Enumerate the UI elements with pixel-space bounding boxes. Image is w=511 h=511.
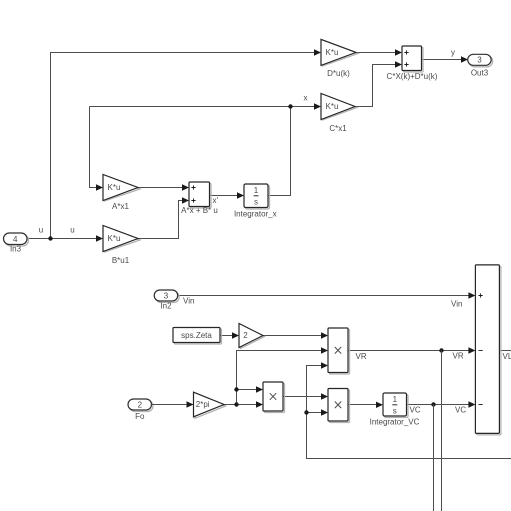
node w0 junction	[234, 402, 238, 406]
svg-text:Integrator_VC: Integrator_VC	[370, 417, 420, 426]
sum A*x + B* u	[181, 182, 218, 215]
svg-text:VL: VL	[503, 352, 511, 361]
plant sum block	[475, 265, 501, 435]
wire VL feedback vertical	[307, 366, 511, 459]
node VC junction	[431, 402, 435, 406]
svg-text:K*u: K*u	[108, 183, 121, 192]
constant sps.Zeta	[173, 328, 222, 345]
outport Out3	[468, 54, 493, 77]
wire A*x1 output to sum	[138, 187, 183, 189]
svg-text:s: s	[393, 407, 397, 416]
gain B*u1	[103, 226, 140, 266]
arrow into A*x1	[96, 184, 103, 190]
inport Fo	[128, 399, 153, 421]
arrow into 2*pi gain	[187, 401, 194, 407]
svg-text:2: 2	[243, 331, 248, 340]
wire Vin from In2 to plant	[178, 295, 469, 297]
svg-text:3: 3	[477, 55, 482, 64]
wire VL output of plant	[499, 350, 511, 352]
svg-text:VC: VC	[410, 406, 421, 415]
node VR junction	[439, 348, 443, 352]
arrow into plant VR	[468, 347, 475, 353]
arrow into product1 input3	[321, 362, 328, 368]
node x junction	[288, 104, 292, 108]
arrow into Integrator_VC	[376, 402, 383, 408]
wire VL branch to product3 input2	[307, 412, 323, 414]
svg-text:x': x'	[213, 196, 219, 205]
arrow into product2 input1	[256, 386, 263, 392]
wire sps.Zeta to gain 2	[221, 335, 234, 337]
wire sum output x' to Integrator_x	[210, 195, 239, 197]
svg-text:Integrator_x: Integrator_x	[234, 209, 277, 218]
svg-text:In3: In3	[10, 245, 22, 254]
wire product2 out to product3	[283, 396, 322, 398]
svg-text:u: u	[70, 226, 74, 235]
gain 2*pi	[194, 392, 226, 418]
svg-text:C*X(k)+D*u(k): C*X(k)+D*u(k)	[387, 72, 438, 81]
svg-text:D*u(k): D*u(k)	[327, 69, 350, 78]
wire C*x1 output to sum2 input 2	[355, 65, 396, 107]
wire branch to product2 input1	[237, 389, 258, 391]
node VL junction	[304, 410, 308, 414]
gain D*u(k)	[321, 39, 358, 78]
svg-text:Fo: Fo	[135, 412, 145, 421]
svg-text:Out3: Out3	[471, 69, 489, 78]
arrow into sum1 input2	[182, 197, 189, 203]
arrow into Out3	[461, 56, 468, 62]
wire u branch up to D*u(k)	[51, 53, 316, 239]
wire VR tap down	[441, 351, 443, 511]
wire product3 out to Integrator_VC	[348, 404, 377, 406]
wire y from sum2 to Out3	[422, 59, 463, 61]
wire 2*pi output to product2	[224, 404, 257, 406]
svg-text:C*x1: C*x1	[329, 124, 347, 133]
svg-text:Vin: Vin	[451, 300, 462, 309]
product1 VR	[328, 328, 367, 374]
wire node x line to C*x1 and feedback	[90, 106, 316, 108]
arrow into plant VC	[468, 401, 475, 407]
product3	[328, 389, 350, 423]
gain C*x1	[321, 94, 357, 134]
arrow into product3 input1	[321, 393, 328, 399]
svg-text:K*u: K*u	[326, 48, 339, 57]
arrow into product1 input2	[321, 347, 328, 353]
svg-text:A*x1: A*x1	[112, 202, 129, 211]
svg-text:s: s	[254, 198, 258, 207]
product2	[263, 382, 285, 413]
arrow into product3 input2	[321, 409, 328, 415]
wire VC from Integrator_VC to plant	[407, 404, 470, 406]
wire VC tap down	[433, 405, 435, 511]
arrow into sum2 input1	[395, 49, 402, 55]
svg-text:Vin: Vin	[183, 297, 194, 306]
inport In2	[154, 290, 179, 311]
wire gain 2 to product VR	[263, 335, 322, 337]
wire feedback down to A*x1	[90, 107, 98, 188]
svg-text:K*u: K*u	[108, 234, 121, 243]
svg-text:In2: In2	[160, 302, 172, 311]
svg-text:2*pi: 2*pi	[196, 400, 210, 409]
svg-text:VR: VR	[453, 352, 464, 361]
svg-text:1: 1	[393, 395, 398, 404]
gain A*x1	[103, 175, 140, 212]
arrow into product1 input1	[321, 332, 328, 338]
wire Fo to 2*pi	[152, 404, 188, 406]
wire Integrator_x output up to node x	[268, 107, 291, 196]
arrow into B*u1	[96, 235, 103, 241]
svg-text:sps.Zeta: sps.Zeta	[181, 331, 212, 340]
wire B*u1 output to sum input 2	[138, 201, 183, 239]
svg-text:A*x + B* u: A*x + B* u	[181, 206, 218, 215]
arrow into gain 2	[232, 332, 239, 338]
node w0 junction 2	[234, 387, 238, 391]
svg-text:VC: VC	[455, 406, 466, 415]
arrow into D*u(k)	[314, 49, 321, 55]
svg-text:4: 4	[13, 235, 18, 244]
svg-text:3: 3	[164, 292, 169, 301]
wire branch up from 2*pi node to product VR input2	[237, 351, 323, 405]
svg-text:1: 1	[254, 186, 259, 195]
integrator Integrator_x	[234, 184, 277, 218]
arrow into plant Vin	[468, 292, 475, 298]
svg-text:VR: VR	[356, 352, 367, 361]
integrator Integrator_VC	[370, 393, 420, 426]
arrow into Integrator_x	[237, 192, 244, 198]
arrow into C*x1	[314, 103, 321, 109]
wire VR from product1 to plant	[348, 350, 469, 352]
arrow into sum2 input2	[395, 61, 402, 67]
node u junction	[48, 236, 52, 240]
svg-text:2: 2	[138, 401, 143, 410]
gain 2	[239, 324, 265, 349]
svg-text:y: y	[451, 48, 455, 57]
arrow into product2 input2	[256, 401, 263, 407]
wire u from In3 to B*u1	[27, 238, 97, 240]
svg-text:x: x	[304, 94, 308, 103]
svg-text:B*u1: B*u1	[112, 256, 130, 265]
svg-text:K*u: K*u	[326, 102, 339, 111]
wire D*u(k) output to sum2	[356, 52, 396, 54]
sum C*X(k)+D*u(k)	[387, 46, 438, 81]
svg-text:u: u	[39, 226, 43, 235]
arrow into sum1 input1	[182, 184, 189, 190]
inport In3	[4, 233, 29, 254]
